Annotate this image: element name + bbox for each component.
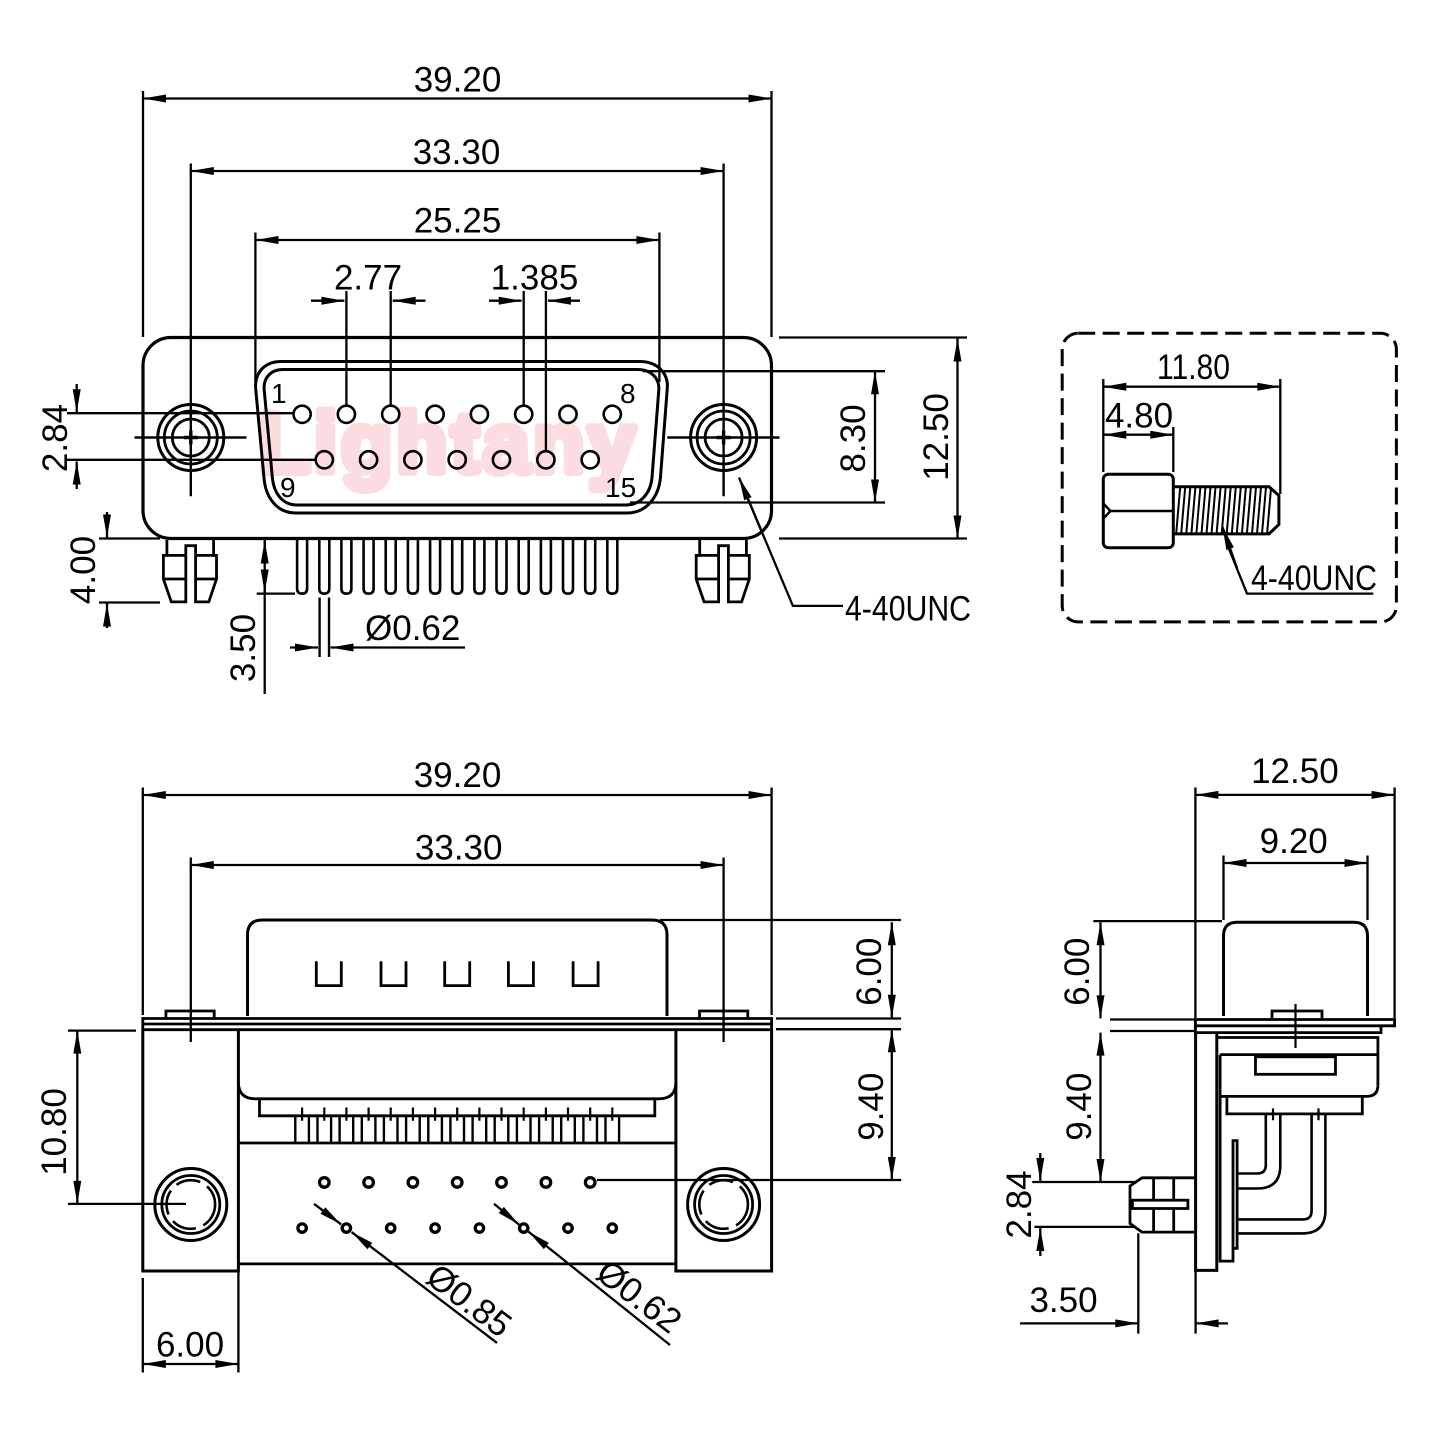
15 pin bodies (bottom view) xyxy=(295,1116,619,1143)
dim 6.00 side xyxy=(1058,921,1222,1031)
flange (side) xyxy=(1195,1020,1394,1033)
svg-text:33.30: 33.30 xyxy=(413,133,501,172)
right flange tab xyxy=(700,1011,748,1019)
svg-text:1.385: 1.385 xyxy=(491,259,579,298)
svg-text:2.84: 2.84 xyxy=(1000,1170,1039,1238)
thread crest lines xyxy=(1176,487,1271,534)
svg-text:3.50: 3.50 xyxy=(1029,1281,1097,1320)
svg-text:Lightany: Lightany xyxy=(259,396,639,490)
dim 6.00 bottom-left xyxy=(143,1271,239,1373)
D-shell inner outline xyxy=(264,370,659,506)
svg-text:4.00: 4.00 xyxy=(64,536,103,604)
svg-text:33.30: 33.30 xyxy=(415,829,503,868)
shell rear edge below flange xyxy=(1217,1038,1378,1086)
svg-text:Ø0.62: Ø0.62 xyxy=(365,609,460,648)
housing left edge / L2 layer xyxy=(1220,1055,1237,1262)
svg-text:3.50: 3.50 xyxy=(224,614,263,682)
dim 12.50 right xyxy=(779,338,967,539)
svg-text:4-40UNC: 4-40UNC xyxy=(845,590,971,629)
dim 2.84 left xyxy=(36,384,315,489)
15 pins below body (front) xyxy=(297,539,617,594)
board lock foot (side) xyxy=(1130,1178,1196,1232)
dim 39.20 top xyxy=(143,61,772,338)
pin circles bottom row 9-15 xyxy=(316,451,599,468)
dim 4.80 xyxy=(1103,397,1173,473)
dim 25.25 top xyxy=(255,202,659,383)
svg-text:9: 9 xyxy=(280,472,296,503)
dim 1.385 xyxy=(489,259,580,451)
pin circles top row 1-8 xyxy=(294,406,621,423)
leader dia 0.62 xyxy=(494,1204,689,1345)
svg-text:15: 15 xyxy=(605,472,636,503)
mounting flange strip xyxy=(143,1019,772,1030)
shell top (bottom view) xyxy=(248,920,668,1016)
dashed detail frame xyxy=(1062,333,1396,622)
shell tab (side) xyxy=(1272,1011,1322,1019)
15 pin center ticks (bottom view) xyxy=(302,1108,612,1121)
right board-lock foot xyxy=(696,540,749,602)
screw hex head xyxy=(1103,474,1173,548)
insulator housing (side) xyxy=(1220,1055,1378,1097)
dim 6.00 mid (for bottom view) xyxy=(660,920,901,1029)
dim dia 0.62 front xyxy=(290,609,465,648)
connector body outline (front) xyxy=(143,338,772,539)
step box xyxy=(1227,1096,1362,1114)
left flange tab xyxy=(166,1011,214,1019)
dim 4.00 left xyxy=(64,512,160,628)
BOTTOM-VIEW xyxy=(35,756,901,1373)
svg-text:6.00: 6.00 xyxy=(1058,938,1097,1006)
dim 33.30 bottom xyxy=(191,829,724,1043)
svg-text:Ø0.62: Ø0.62 xyxy=(589,1252,689,1341)
svg-text:6.00: 6.00 xyxy=(850,938,889,1006)
dim 3.50 front xyxy=(224,540,295,695)
left mounting hole xyxy=(155,1169,227,1241)
svg-text:10.80: 10.80 xyxy=(35,1088,74,1176)
left screw rings xyxy=(158,405,224,471)
svg-text:4-40UNC: 4-40UNC xyxy=(1251,559,1377,598)
svg-text:39.20: 39.20 xyxy=(414,61,502,100)
5 insert slots xyxy=(316,961,598,985)
svg-text:12.50: 12.50 xyxy=(917,393,956,481)
hex facet line xyxy=(1103,504,1173,519)
left screw crosshair xyxy=(135,401,247,496)
dim 33.30 top xyxy=(191,133,724,401)
dim 10.80 xyxy=(35,1031,186,1204)
bracket plate (side) xyxy=(1196,1033,1217,1271)
svg-text:12.50: 12.50 xyxy=(1251,752,1339,791)
pin ticks (side) xyxy=(1273,1108,1319,1120)
SIDE-VIEW xyxy=(1000,752,1395,1334)
label 4-40UNC detail leader xyxy=(1223,527,1378,598)
dim 12.50 side xyxy=(1195,752,1394,1018)
svg-text:8.30: 8.30 xyxy=(834,404,873,472)
label 4-40UNC front leader xyxy=(739,478,971,629)
svg-text:1: 1 xyxy=(271,378,287,409)
left bracket column xyxy=(143,1030,239,1271)
svg-text:9.40: 9.40 xyxy=(1060,1073,1099,1141)
svg-text:Ø0.85: Ø0.85 xyxy=(419,1256,519,1345)
dim 3.50 side xyxy=(1020,1233,1228,1333)
svg-text:25.25: 25.25 xyxy=(414,202,502,241)
left board-lock foot xyxy=(163,540,216,602)
svg-text:39.20: 39.20 xyxy=(414,756,502,795)
rear-row bent pin xyxy=(1237,1114,1325,1234)
7 holes row (top, 0.85) xyxy=(320,1178,596,1188)
threaded shaft outline xyxy=(1173,487,1279,534)
svg-text:9.40: 9.40 xyxy=(852,1073,891,1141)
dim 8.30 right xyxy=(630,371,885,502)
front-row bent pin xyxy=(1237,1114,1280,1189)
svg-text:11.80: 11.80 xyxy=(1157,348,1230,387)
8 holes row (bottom, 0.62) xyxy=(298,1224,617,1232)
dim 39.20 bottom xyxy=(143,756,772,1015)
FRONT-VIEW xyxy=(36,61,971,695)
tab centerline xyxy=(1294,1004,1296,1048)
dim 9.40 side xyxy=(1060,1033,1101,1182)
right screw rings xyxy=(691,405,757,471)
svg-text:6.00: 6.00 xyxy=(156,1326,224,1365)
svg-text:8: 8 xyxy=(620,378,636,409)
right mounting hole xyxy=(688,1169,760,1241)
dim 11.80 xyxy=(1103,348,1280,494)
pin 2 long tail xyxy=(320,598,329,658)
right bracket column xyxy=(676,1030,772,1271)
dim 2.84 side xyxy=(1000,1153,1136,1256)
svg-text:9.20: 9.20 xyxy=(1260,822,1328,861)
dim 2.77 xyxy=(311,259,426,406)
shell (side) xyxy=(1224,922,1368,1016)
dim 9.40 mid (for bottom view) xyxy=(597,1029,901,1180)
insulator lower outline xyxy=(238,1082,676,1264)
DETAIL-BOX xyxy=(1062,333,1396,622)
svg-text:4.80: 4.80 xyxy=(1105,397,1173,436)
leader dia 0.85 xyxy=(314,1204,519,1345)
right screw crosshair xyxy=(667,401,779,496)
latch recess rect xyxy=(1256,1057,1336,1075)
D-shell outer outline xyxy=(256,362,668,514)
dim 9.20 side xyxy=(1224,822,1368,920)
